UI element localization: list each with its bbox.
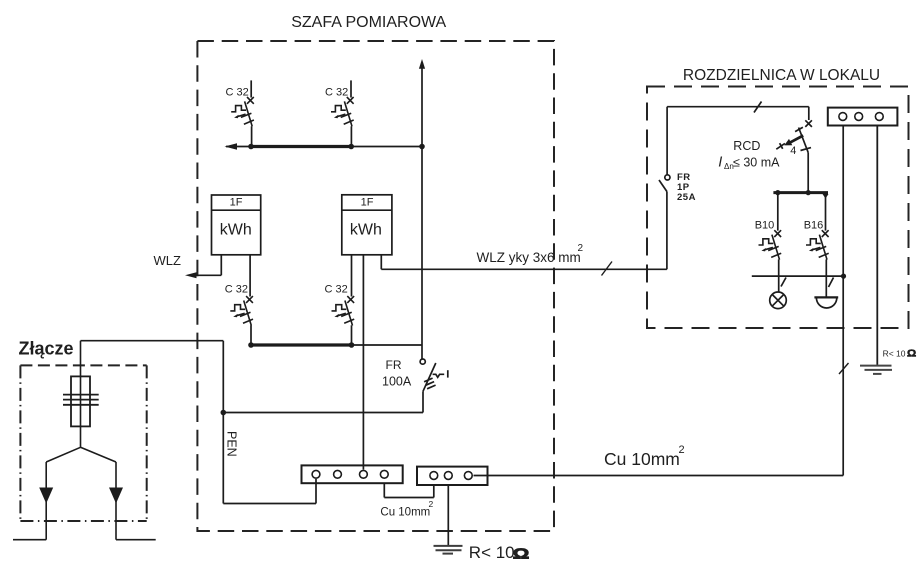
- svg-text:25A: 25A: [677, 192, 696, 203]
- svg-text:R< 10: R< 10: [469, 543, 515, 562]
- svg-text:1F: 1F: [361, 197, 374, 209]
- svg-text:Cu 10mm: Cu 10mm: [604, 449, 680, 469]
- svg-text:Ω: Ω: [907, 348, 916, 360]
- svg-text:Ω: Ω: [513, 546, 530, 563]
- svg-text:kWh: kWh: [350, 221, 382, 238]
- svg-text:R< 10: R< 10: [883, 349, 906, 359]
- svg-text:2: 2: [578, 243, 584, 254]
- svg-text:100A: 100A: [382, 375, 412, 389]
- svg-text:SZAFA POMIAROWA: SZAFA POMIAROWA: [291, 14, 446, 31]
- svg-text:I: I: [718, 155, 722, 171]
- svg-text:B10: B10: [755, 219, 775, 231]
- svg-text:2: 2: [429, 499, 434, 509]
- svg-text:4: 4: [790, 145, 796, 157]
- svg-text:ROZDZIELNICA W LOKALU: ROZDZIELNICA W LOKALU: [683, 67, 880, 84]
- svg-text:PEN: PEN: [224, 431, 238, 457]
- svg-text:C 32: C 32: [225, 284, 248, 296]
- svg-text:B16: B16: [804, 219, 824, 231]
- svg-text:C 32: C 32: [325, 284, 348, 296]
- svg-text:FR: FR: [386, 358, 402, 372]
- svg-text:1F: 1F: [230, 197, 243, 209]
- svg-text:RCD: RCD: [733, 139, 760, 153]
- svg-text:2: 2: [679, 444, 685, 456]
- svg-text:Złącze: Złącze: [19, 339, 74, 359]
- svg-text:WLZ yky 3x6 mm: WLZ yky 3x6 mm: [477, 250, 581, 265]
- svg-text:≤ 30 mA: ≤ 30 mA: [733, 156, 780, 170]
- svg-text:Cu 10mm: Cu 10mm: [380, 507, 430, 519]
- svg-text:C 32: C 32: [325, 86, 348, 98]
- svg-text:kWh: kWh: [220, 221, 252, 238]
- svg-text:WLZ: WLZ: [154, 253, 182, 268]
- svg-text:C 32: C 32: [226, 86, 249, 98]
